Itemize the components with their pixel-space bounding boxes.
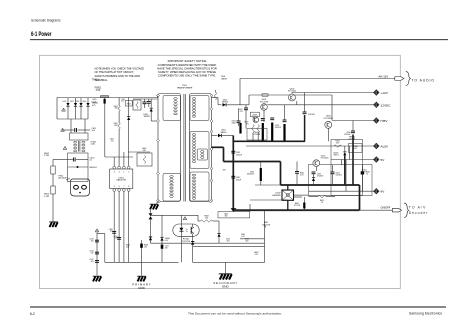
capacitor C611	[62, 129, 74, 131]
svg-text:104: 104	[126, 247, 129, 249]
opto PC601 body	[173, 224, 199, 236]
IC601 body	[110, 169, 133, 189]
port 9V node	[374, 188, 380, 194]
wire IC pin5 down	[113, 191, 115, 262]
sub box inner	[331, 140, 363, 196]
capacitor C612 across line	[68, 159, 73, 161]
svg-text:RD5.6: RD5.6	[334, 154, 339, 156]
wire primary gnd drop	[141, 240, 143, 276]
capacitor C654 electrolytic	[260, 168, 262, 181]
ground secondary	[219, 273, 232, 279]
svg-text:D613: D613	[76, 101, 80, 103]
svg-text:C602: C602	[121, 99, 125, 101]
zener box ZD601	[250, 112, 259, 116]
svg-text:TO AUDIO: TO AUDIO	[412, 78, 435, 82]
transistor Q604	[253, 117, 259, 123]
svg-text:104: 104	[110, 231, 113, 233]
wire AL5V rail	[246, 145, 374, 147]
snubber cap C602	[143, 101, 147, 103]
resistor R602	[51, 186, 55, 194]
heading rule	[30, 39, 448, 41]
footer rule	[30, 306, 446, 308]
svg-text:1000uF: 1000uF	[236, 154, 243, 156]
ground primary left	[49, 222, 58, 228]
opto LED	[179, 228, 183, 231]
shunt reg IC604 KA431	[149, 213, 153, 219]
wire +12V	[292, 92, 374, 94]
ground below transformer primary	[156, 202, 159, 204]
heavy ground bus	[233, 209, 359, 211]
wire IC left drop	[104, 98, 106, 158]
resistor R658	[201, 220, 213, 222]
wire opto led bottom	[180, 236, 182, 262]
svg-text:470: 470	[336, 143, 339, 145]
startup block	[137, 153, 152, 166]
capacitor C621	[245, 105, 247, 108]
wire IC pin7 down	[123, 191, 125, 262]
svg-text:12VDC: 12VDC	[381, 103, 392, 107]
capacitor C656	[351, 130, 355, 132]
wire IC pin1 up	[123, 152, 125, 166]
wire sub drop a	[345, 160, 347, 192]
diode D652	[312, 178, 315, 181]
relay box	[247, 129, 267, 141]
svg-text:R605: R605	[114, 123, 118, 125]
IC601 top pins	[113, 166, 116, 169]
svg-text:OF THE PARTS AT HOT CIRCUIT,: OF THE PARTS AT HOT CIRCUIT,	[95, 70, 135, 74]
ground primary main	[137, 276, 146, 282]
svg-text:GND: GND	[138, 286, 146, 290]
wire 12VDC	[267, 104, 373, 106]
transistor Q603	[325, 121, 332, 128]
resistor R601	[52, 160, 54, 167]
svg-text:R606: R606	[126, 245, 130, 247]
svg-text:TLP721F: TLP721F	[182, 241, 191, 243]
svg-text:470/16V: 470/16V	[344, 134, 351, 136]
svg-text:100uF: 100uF	[91, 101, 97, 103]
port AH-12V arrow	[395, 77, 404, 81]
transformer core	[183, 94, 185, 202]
wire fb corner	[197, 215, 199, 221]
svg-text:KTC3198: KTC3198	[260, 101, 268, 103]
wire HI5V branch	[352, 121, 354, 131]
primary winding box 2	[163, 174, 181, 202]
wire transformer left pin1	[157, 96, 160, 98]
wire bridge to filter left	[70, 119, 72, 133]
transistor Q601	[261, 104, 268, 111]
diode D611	[66, 98, 69, 119]
wire AC top	[57, 97, 158, 99]
IC602 body	[282, 190, 294, 200]
opto phototransistor	[190, 227, 192, 234]
svg-text:6: 6	[119, 186, 120, 188]
wire sw drop	[249, 204, 251, 212]
port 5V node	[374, 157, 380, 163]
svg-text:100: 100	[144, 246, 147, 248]
wire Q601 top	[263, 104, 265, 105]
bracket to AV	[404, 203, 409, 218]
svg-text:ON/OFF: ON/OFF	[381, 205, 391, 209]
svg-text:NOTE:WHEN YOU CHECK THE VOLTAG: NOTE:WHEN YOU CHECK THE VOLTAGE	[95, 66, 145, 70]
capacitor C624 electrolytic	[283, 124, 285, 141]
capacitor C623 electrolytic	[271, 123, 273, 141]
feedback box	[193, 246, 265, 262]
wire HI5V	[332, 120, 374, 122]
svg-text:AH-12V: AH-12V	[378, 74, 388, 78]
svg-text:470/25V: 470/25V	[275, 127, 282, 129]
wire IC602 top	[287, 185, 289, 190]
wire fb top	[151, 214, 199, 216]
snubber top wire	[133, 98, 158, 100]
junction ground bus	[231, 208, 237, 212]
svg-text:1: 1	[123, 172, 124, 174]
transformer pins right	[210, 94, 213, 97]
resistor R653	[318, 195, 326, 197]
svg-text:R614: R614	[114, 236, 118, 238]
svg-text:8: 8	[128, 186, 129, 188]
capacitor C615	[161, 245, 164, 249]
ground center bottom	[93, 276, 102, 282]
wire bridge bottom rail	[57, 118, 88, 120]
primary diode column	[128, 98, 130, 117]
capacitor C619 on pin6	[117, 237, 121, 239]
primary resistor R604	[118, 98, 120, 106]
fuse FS601	[101, 96, 109, 98]
svg-text:This Document can not be used: This Document can not be used without Sa…	[188, 312, 282, 316]
heavy wire ZD651 drop	[344, 157, 346, 185]
svg-text:103: 103	[91, 261, 94, 263]
thermistor box	[349, 144, 363, 153]
wire IC pin3 up	[113, 157, 115, 166]
svg-text:472: 472	[111, 141, 114, 143]
snubber diode D601	[150, 109, 153, 112]
capacitor C606 electrolytic	[239, 123, 241, 134]
capacitor marks on drop	[95, 239, 99, 241]
svg-text:TRANSFORMER: TRANSFORMER	[177, 87, 193, 90]
bracket to audio	[406, 72, 411, 86]
svg-text:R604: R604	[114, 106, 118, 108]
wire Q601 down	[263, 110, 265, 122]
svg-text:822: 822	[246, 240, 249, 242]
resistor R651	[334, 145, 342, 147]
zener ZD603	[149, 237, 152, 240]
wire bridge left drop	[56, 98, 58, 120]
svg-text:Q605: Q605	[224, 213, 228, 215]
warning mark near filter	[63, 146, 67, 149]
svg-text:472: 472	[91, 253, 94, 255]
svg-text:R602: R602	[127, 103, 131, 105]
AC inlet P601	[71, 179, 90, 196]
port AL5V node	[374, 143, 380, 149]
secondary winding box 3	[190, 172, 209, 201]
svg-text:Decoder: Decoder	[409, 211, 428, 215]
snubber bottom wire	[151, 120, 157, 122]
wire to IC top rail a	[128, 151, 150, 153]
svg-text:1.5A: 1.5A	[91, 143, 96, 146]
capacitor C616	[140, 244, 143, 248]
wire cluster drop a	[245, 113, 247, 129]
svg-text:100/10V: 100/10V	[336, 174, 343, 176]
svg-text:D614: D614	[83, 101, 87, 103]
wire Q603 drop	[327, 128, 329, 141]
svg-text:470/16V: 470/16V	[308, 114, 315, 116]
heavy wire 12V rail	[233, 140, 305, 142]
wire Q652 drop	[315, 167, 317, 171]
port +12V node	[374, 90, 380, 96]
primary winding 1 loops	[174, 98, 178, 100]
line filter core	[78, 141, 80, 152]
svg-text:473: 473	[240, 111, 243, 113]
transformer primary box	[158, 94, 181, 202]
wire sub verticals	[349, 146, 351, 160]
svg-text:SB360: SB360	[221, 132, 227, 134]
snubber box	[133, 100, 141, 110]
diode D602	[223, 103, 226, 106]
svg-text:Samsung Electronics: Samsung Electronics	[409, 312, 442, 316]
wire D602 node up	[239, 79, 241, 105]
schematic border frame	[40, 55, 401, 288]
heavy wire 5V rail2	[281, 184, 360, 186]
primary winding box 1	[163, 96, 181, 121]
capacitor C618 on pin5	[112, 231, 116, 233]
wire bridge to filter right	[84, 119, 86, 133]
svg-text:470uF: 470uF	[236, 179, 242, 181]
svg-text:KTC3203: KTC3203	[321, 158, 329, 160]
svg-text:2: 2	[128, 172, 129, 174]
warning mark near bridge	[62, 108, 66, 111]
wire 5V out	[331, 159, 374, 161]
heavy wire 5V drop2	[280, 162, 282, 186]
wire sec pin1 jog	[212, 97, 219, 99]
resistor R621	[252, 125, 254, 134]
primary winding 2 loops	[170, 176, 174, 178]
line filter LF601 left coil	[74, 141, 77, 143]
svg-text:470/16V: 470/16V	[317, 175, 324, 177]
svg-text:3: 3	[114, 172, 115, 174]
inner box 12V top	[249, 94, 332, 96]
wire stub to IC rail	[97, 233, 105, 235]
svg-text:D612: D612	[70, 101, 74, 103]
svg-text:AL5V: AL5V	[381, 145, 390, 149]
port 12VDC node	[374, 102, 380, 108]
svg-text:0.47: 0.47	[255, 254, 259, 256]
filter top box	[70, 133, 88, 140]
diode column D608	[161, 215, 163, 243]
svg-text:473: 473	[227, 240, 230, 242]
secondary winding 4 loops	[192, 174, 196, 176]
svg-text:ICP-N25: ICP-N25	[349, 139, 356, 141]
port HI5V node	[374, 118, 380, 124]
svg-text:102: 102	[91, 241, 94, 243]
heavy wire 5V pin	[212, 146, 224, 148]
svg-text:1N4937: 1N4937	[221, 78, 227, 80]
warning bottom	[95, 229, 99, 232]
wire 12V branch drop	[304, 93, 306, 113]
diode D613	[79, 98, 82, 119]
capacitor C651	[295, 171, 299, 173]
secondary winding 2 loops	[192, 134, 196, 136]
sub box outer	[309, 165, 373, 196]
capacitor C605	[238, 109, 240, 122]
svg-text:6-2: 6-2	[30, 312, 35, 316]
wire IC pin2 up	[128, 152, 130, 166]
wire fb box right riser	[264, 210, 266, 246]
wire IC602 bottom	[287, 200, 289, 210]
wire left branch	[53, 159, 68, 161]
wire Q602 drop	[296, 101, 298, 105]
svg-text:F-02: F-02	[353, 148, 357, 150]
transformer bottom pins	[157, 200, 160, 203]
wire 9V rail	[309, 190, 374, 192]
svg-text:HI5V: HI5V	[381, 119, 389, 123]
wire opto led top	[180, 215, 182, 224]
svg-text:4: 4	[119, 172, 120, 174]
capacitor C658	[361, 171, 364, 174]
heavy wire 5V rise	[352, 135, 354, 186]
svg-text:6-1 Power: 6-1 Power	[31, 31, 52, 38]
heavy wire drop to gnd bus	[359, 185, 361, 210]
svg-text:C618: C618	[109, 229, 113, 231]
svg-text:COMPONENTS USE ONLY THE SAME T: COMPONENTS USE ONLY THE SAME TYPE.	[158, 73, 216, 77]
filter lower box	[68, 153, 88, 182]
svg-text:POWER: POWER	[254, 134, 261, 136]
opto arrows	[186, 229, 188, 232]
capacitor C661	[303, 203, 305, 209]
warning mark near C611	[61, 128, 65, 131]
svg-text:1000/10V: 1000/10V	[247, 173, 255, 175]
wire cluster c	[284, 105, 286, 120]
transistor Q602	[289, 94, 296, 101]
diode D614	[86, 98, 89, 119]
svg-text:TO A/V: TO A/V	[409, 206, 426, 210]
wire IC pin8 down	[128, 191, 130, 262]
wire IC pin6 down	[118, 191, 120, 262]
zener ZD651	[343, 152, 346, 155]
port ONOFF arrow	[392, 208, 401, 212]
wire center drop	[96, 233, 98, 276]
fusible resistor R620	[262, 94, 268, 96]
resistor R611	[214, 92, 216, 100]
sw sub box	[218, 212, 250, 218]
warning near opto	[183, 217, 187, 220]
svg-text:TH601: TH601	[92, 79, 100, 81]
svg-text:5: 5	[114, 186, 115, 188]
wire fb bottom rail	[151, 242, 265, 244]
wire primary bottom rail	[105, 261, 179, 263]
wire IC source down	[104, 234, 106, 263]
main cap C601	[104, 99, 106, 104]
svg-text:KA5Q0765: KA5Q0765	[116, 179, 127, 182]
diode D605	[212, 135, 218, 137]
svg-text:+12V: +12V	[381, 91, 389, 95]
transformer secondary box	[190, 94, 212, 202]
secondary winding inner box	[197, 149, 207, 160]
svg-text:2.2M: 2.2M	[44, 196, 49, 198]
capacitor C628	[303, 111, 307, 113]
svg-text:KA78R05: KA78R05	[272, 194, 280, 197]
wire opto tr bottom	[192, 236, 194, 241]
wire secondary gnd drop	[224, 262, 226, 273]
IC601 bottom pins	[113, 189, 116, 192]
svg-text:C603: C603	[110, 139, 114, 141]
svg-text:2.2M: 2.2M	[44, 155, 49, 157]
capacitor C642 on rail	[231, 175, 235, 177]
svg-text:1N4937: 1N4937	[144, 116, 151, 118]
svg-text:222: 222	[121, 101, 124, 103]
secondary winding 1 loops	[192, 98, 196, 100]
capacitor C652	[312, 171, 316, 173]
inner box AH12V top	[240, 78, 395, 80]
svg-text:REL601: REL601	[90, 167, 98, 169]
AC inlet lead	[66, 179, 70, 180]
svg-text:Schematic Diagrams: Schematic Diagrams	[31, 19, 61, 23]
filter mid line with dot	[68, 166, 88, 168]
wire to IC top rail b	[105, 156, 133, 158]
svg-text:470: 470	[165, 247, 168, 249]
svg-text:PTC/1E: PTC/1E	[294, 205, 301, 207]
line filter LF601 right coil	[82, 141, 85, 143]
wire ground bus to arrow	[360, 209, 393, 211]
wire c654 stub	[260, 162, 262, 169]
diode D610	[191, 242, 194, 245]
svg-text:0.22: 0.22	[241, 236, 244, 238]
svg-text:150: 150	[205, 218, 208, 220]
capacitor C653	[331, 171, 335, 173]
heavy wire secondary 12V vertical	[232, 136, 234, 210]
secondary winding 3 loops	[201, 151, 204, 153]
resistor R622	[257, 125, 259, 134]
svg-text:100p: 100p	[232, 123, 236, 125]
svg-text:ALWAYS PROBATE GND TO THE GND: ALWAYS PROBATE GND TO THE GND	[95, 74, 141, 78]
diode D612	[74, 98, 77, 119]
capacitor C641 on rail	[231, 150, 235, 152]
secondary winding box 1	[190, 96, 209, 121]
svg-text:10: 10	[366, 173, 368, 175]
svg-text:2.5A: 2.5A	[96, 89, 101, 92]
wire IC pin4 up	[118, 157, 120, 166]
svg-text:D611: D611	[63, 101, 67, 103]
secondary winding box 2	[190, 132, 209, 169]
heavy wire 5V rail	[224, 161, 281, 163]
transformer pins left	[157, 94, 160, 97]
svg-text:GND: GND	[222, 285, 230, 289]
wire IC602 right	[294, 194, 309, 196]
capacitor C622 electrolytic	[262, 123, 264, 141]
capacitor C662 wire	[240, 238, 265, 240]
svg-text:7: 7	[123, 186, 124, 188]
transistor Q652	[313, 160, 320, 167]
svg-text:KTC3198Y: KTC3198Y	[324, 118, 334, 120]
svg-text:1N4937: 1N4937	[222, 102, 229, 104]
heavy wire 12V rise	[304, 115, 306, 141]
svg-text:ZD601: ZD601	[252, 114, 257, 116]
diode D609	[217, 234, 220, 237]
snubber cap C603	[147, 101, 151, 103]
heavy wire 5V drop	[223, 147, 225, 161]
